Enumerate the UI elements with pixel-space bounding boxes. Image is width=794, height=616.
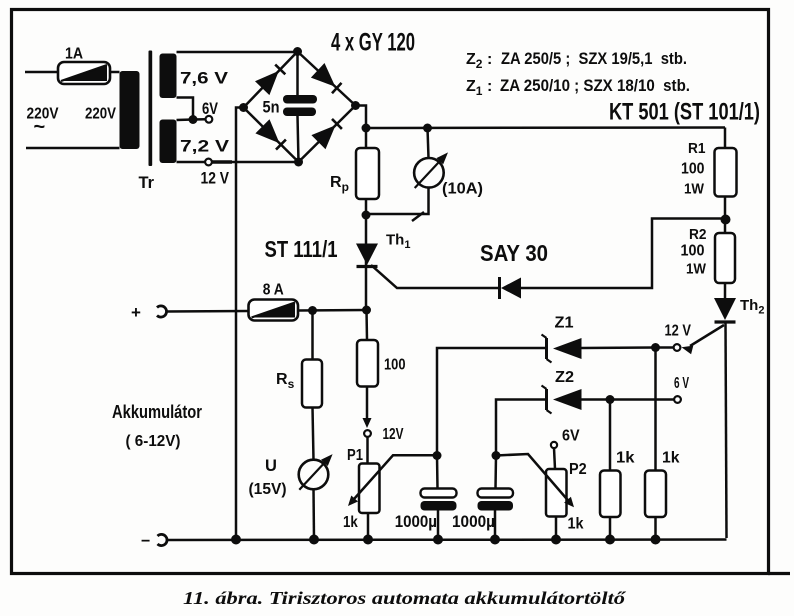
potentiometer P2: [546, 461, 587, 533]
resistor Rs: [276, 360, 322, 408]
svg-text:1A: 1A: [65, 46, 83, 63]
svg-text:−: −: [141, 533, 150, 550]
wire fuse to Th1 node: [298, 309, 367, 312]
node ammeter top junction: [423, 124, 432, 133]
svg-text:1000µ: 1000µ: [452, 512, 495, 531]
wire 100 to 12V terminal: [363, 387, 372, 429]
thyristor Th2: [714, 297, 764, 322]
svg-text:P2: P2: [569, 461, 587, 478]
wire top horizontal bus: [366, 126, 725, 129]
terminal 12V select: [665, 323, 692, 351]
fuse F1 1A: [58, 46, 110, 85]
wire center tap step: [177, 98, 194, 121]
wire Th2 cathode down: [726, 322, 727, 538]
wire junction to Rp: [365, 128, 368, 148]
wire bridge edge bottom-right: [299, 106, 356, 163]
wire Th1 node to 100: [365, 310, 368, 340]
svg-text:ST 111/1: ST 111/1: [265, 236, 338, 262]
svg-text:1W: 1W: [684, 181, 705, 198]
wire 1k left bottom: [609, 517, 612, 540]
node minus rail / bridge: [231, 535, 241, 545]
wire AC input bottom: [26, 147, 120, 150]
zener Z2: [542, 369, 582, 414]
svg-text:12 V: 12 V: [201, 170, 230, 188]
wire P2 wiper: [496, 454, 574, 507]
wire AC input top: [25, 71, 58, 74]
caption figure 11: [183, 588, 626, 608]
terminal 6V: [202, 100, 218, 123]
terminal plus: [131, 303, 167, 322]
svg-text:Z2: Z2: [555, 369, 574, 386]
svg-text:+: +: [131, 303, 141, 322]
wire C1 bottom: [437, 511, 440, 540]
svg-text:ZA 250/10 ; SZX 18/10 stb.: ZA 250/10 ; SZX 18/10 stb.: [500, 76, 690, 95]
svg-text:12 V: 12 V: [665, 323, 692, 340]
svg-text:100: 100: [681, 161, 705, 178]
wire 12V terminal to P1: [366, 437, 369, 464]
node plus rail Th1 junction: [362, 306, 371, 315]
capacitor C1 1000µ: [395, 489, 457, 532]
wire fuse to transformer: [110, 71, 120, 74]
wire 1k right bottom: [654, 517, 657, 540]
svg-text:220V: 220V: [85, 106, 117, 123]
node P1 wiper / Z1 / C1: [433, 451, 442, 460]
node minus rail / P1: [363, 535, 373, 545]
wire bridge right to junction: [356, 106, 367, 129]
diode D4 (bridge bottom-right): [311, 119, 342, 149]
wire P2 bottom: [555, 517, 558, 540]
wire minus rail: [167, 538, 727, 541]
resistor R1: [681, 140, 737, 198]
svg-text:100: 100: [681, 243, 705, 260]
wire Z2 anode: [582, 398, 611, 401]
wire Th1 gate: [371, 265, 499, 288]
wire Rs to voltmeter: [313, 408, 314, 461]
svg-text::: :: [487, 51, 492, 68]
svg-text:7,6 V: 7,6 V: [180, 69, 229, 88]
svg-text:( 6-12V): ( 6-12V): [126, 433, 181, 450]
wire R1 to R2: [724, 197, 727, 234]
capacitor 5n: [263, 52, 318, 163]
transformer Tr secondary winding 7.2V: [160, 120, 230, 164]
resistor 1k (left): [600, 450, 635, 518]
wire 12V select to Z1: [656, 346, 674, 349]
wire secondary top to bridge: [177, 51, 298, 54]
wire plus to fuse: [167, 310, 249, 313]
svg-text:11. ábra. Tirisztoros automata: 11. ábra. Tirisztoros automata akkumulát…: [183, 588, 626, 608]
label ST 111/1: [265, 236, 338, 262]
diode SAY 30: [480, 240, 548, 299]
svg-text:P1: P1: [347, 447, 363, 464]
label Z2 types: [466, 49, 687, 71]
svg-text:8 A: 8 A: [263, 282, 284, 299]
wire voltmeter bottom: [312, 489, 315, 540]
diode D2 (bridge top-right): [311, 63, 342, 93]
wire Z1 anode: [582, 346, 656, 349]
terminal 6V select: [674, 375, 689, 403]
svg-text:6 V: 6 V: [674, 375, 689, 392]
zener Z1: [542, 315, 582, 363]
svg-text:1k: 1k: [616, 450, 635, 467]
node Z2 6V junction: [606, 395, 615, 404]
node Z1 12V junction: [651, 343, 660, 352]
svg-text:5n: 5n: [263, 99, 280, 117]
wire P1 wiper: [348, 455, 437, 506]
wire bus to R1: [724, 128, 727, 150]
node bridge top: [293, 47, 302, 56]
wire R2 to Th2: [724, 283, 727, 298]
wire secondary bottom: [177, 161, 206, 164]
node minus rail / P2: [551, 535, 561, 545]
svg-text:Th1: Th1: [386, 232, 410, 252]
wire SAY30 to R1R2 junction: [521, 219, 725, 289]
svg-text:ZA 250/5 ; SZX 19/5,1 stb.: ZA 250/5 ; SZX 19/5,1 stb.: [501, 49, 687, 68]
svg-text:1k: 1k: [343, 514, 358, 531]
fuse F2 8A: [249, 282, 299, 321]
terminal 12V (P1 tap): [364, 426, 404, 443]
node bridge bottom: [294, 158, 303, 167]
svg-text::: :: [487, 78, 492, 95]
svg-text:Z1: Z1: [466, 78, 483, 98]
wire C2 bottom: [494, 511, 497, 540]
svg-text:6V: 6V: [202, 100, 218, 118]
node R1 R2 junction: [721, 215, 731, 225]
wire meter top: [428, 128, 429, 158]
svg-text:U: U: [265, 457, 277, 475]
wire Th2 gate: [682, 325, 725, 354]
wire 12V to bridge bottom: [212, 160, 299, 163]
svg-text:1k: 1k: [662, 450, 680, 467]
svg-text:Th2: Th2: [740, 297, 764, 317]
diode D1 (bridge top-left): [255, 65, 285, 96]
svg-text:12V: 12V: [383, 426, 404, 443]
terminal 6V (P2 top): [551, 428, 580, 449]
svg-text:(10A): (10A): [442, 181, 483, 198]
transformer Tr primary winding: [120, 71, 140, 149]
svg-text:Z1: Z1: [555, 315, 574, 332]
node minus rail / C2: [490, 535, 500, 545]
node Rp bottom junction: [362, 211, 371, 220]
terminal 12V: [201, 159, 230, 188]
node minus rail / voltmeter: [309, 535, 319, 545]
wire bridge edge bottom-left: [244, 108, 299, 163]
svg-text:(15V): (15V): [249, 481, 287, 498]
resistor 100: [357, 340, 406, 387]
label 4xGY120: [331, 29, 415, 57]
resistor R2: [681, 226, 736, 283]
svg-text:100: 100: [384, 357, 406, 374]
svg-text:4 x GY 120: 4 x GY 120: [331, 29, 415, 57]
svg-text:R2: R2: [689, 226, 707, 243]
node C2 top / P2 wiper: [492, 451, 501, 460]
ammeter (10A): [414, 152, 483, 197]
node Rp top junction: [362, 124, 371, 133]
svg-text:KT 501 (ST 101/1): KT 501 (ST 101/1): [609, 99, 760, 126]
wire Z2 cathode to C2 node: [496, 400, 547, 456]
capacitor C2 1000µ: [452, 489, 513, 532]
svg-text:Tr: Tr: [139, 174, 155, 192]
wire C2 top: [494, 456, 497, 489]
wire Z2 junction to 6V terminal: [610, 398, 674, 401]
diode D3 (bridge bottom-left): [255, 119, 286, 149]
svg-text:SAY 30: SAY 30: [480, 240, 548, 266]
resistor Rp: [330, 148, 379, 199]
svg-text:Z2: Z2: [466, 51, 483, 71]
resistor 1k (right): [645, 450, 680, 518]
wire Z1 cathode to P1 wiper node: [437, 348, 547, 456]
svg-text:Akkumulátor: Akkumulátor: [112, 402, 202, 422]
svg-text:~: ~: [34, 116, 46, 138]
node bridge left: [239, 103, 248, 112]
wire P1 bottom: [367, 513, 370, 540]
label Akkumulátor: [112, 402, 202, 450]
wire Rp to Th1: [365, 199, 368, 310]
thyristor Th1: [356, 232, 410, 267]
wire bridge edge top-left: [244, 52, 298, 108]
wire 6V junction to 1k: [609, 400, 612, 471]
node 6V tap: [189, 115, 206, 124]
node bridge right: [351, 101, 360, 110]
label Z1 types: [466, 76, 690, 98]
label KT 501 (ST 101/1): [609, 99, 760, 126]
voltmeter U (15V): [249, 454, 333, 498]
wire 12V junction to 1k: [654, 348, 657, 471]
wire 6V terminal to P2: [554, 448, 555, 469]
potentiometer P1: [343, 447, 380, 531]
svg-text:6V: 6V: [562, 428, 580, 445]
terminal minus: [141, 533, 167, 550]
svg-text:Rp: Rp: [330, 174, 349, 194]
wire bridge edge top-right: [298, 52, 356, 106]
wire C1 top: [436, 456, 439, 489]
transformer Tr core: [149, 51, 153, 167]
transformer Tr secondary winding 7.6V: [160, 54, 229, 99]
label 220V mains: [27, 106, 60, 139]
node Rs junction: [308, 306, 317, 315]
node minus rail / C1: [433, 535, 443, 545]
svg-text:Rs: Rs: [276, 371, 295, 391]
svg-text:1000µ: 1000µ: [395, 512, 437, 531]
svg-text:7,2 V: 7,2 V: [180, 137, 230, 156]
node minus rail / 1k right: [651, 535, 661, 545]
wire meter bottom: [366, 188, 429, 221]
label Tr: [139, 174, 155, 192]
svg-text:R1: R1: [688, 140, 706, 157]
node minus rail / 1k left: [605, 535, 615, 545]
svg-text:1W: 1W: [686, 261, 707, 278]
label 220V primary: [85, 106, 117, 123]
wire Rs top: [311, 311, 314, 360]
svg-text:1k: 1k: [568, 516, 584, 533]
wire bridge minus rail: [236, 108, 244, 540]
